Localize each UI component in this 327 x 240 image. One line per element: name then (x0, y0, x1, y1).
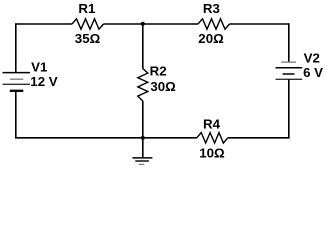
ground bar small gray (139, 163, 145, 165)
battery V1 plate short gray (10, 78, 23, 80)
svg-text:V2: V2 (304, 50, 320, 65)
svg-text:30Ω: 30Ω (150, 79, 176, 94)
svg-text:R4: R4 (203, 117, 221, 132)
svg-text:20Ω: 20Ω (198, 31, 224, 46)
battery V1 plate short thick (negative) (10, 90, 23, 92)
ground stub (142, 138, 144, 159)
wire R2 lower lead (142, 101, 144, 138)
battery V1 plate long (positive top) (3, 72, 31, 74)
wire bottom-right (R4 to V2) (228, 137, 290, 139)
wire bottom-left (V1 to R4) (16, 137, 197, 139)
resistor R1 (72, 19, 104, 29)
wire top-right (R3 to V2) (230, 23, 289, 25)
ground bar middle (135, 160, 149, 162)
wire right-vertical lower (V2 to bottom corner) (288, 79, 290, 138)
svg-text:35Ω: 35Ω (75, 31, 101, 46)
svg-text:R2: R2 (150, 64, 167, 79)
svg-text:10Ω: 10Ω (199, 146, 225, 161)
ground bar long (132, 157, 152, 159)
svg-text:12 V: 12 V (30, 74, 57, 89)
wire top-middle (R1 to R3) (104, 23, 199, 25)
resistor R3 (198, 19, 230, 29)
battery V2 plate short (negative) (283, 73, 295, 75)
battery V2 plate short gray (top) (281, 61, 296, 63)
svg-text:R1: R1 (78, 1, 96, 16)
battery V2 plate long (positive) (276, 67, 303, 69)
node bottom junction dot (141, 136, 145, 140)
node top junction dot (141, 22, 145, 26)
wire R2 upper lead (142, 24, 144, 69)
wire top-left (V1 top to R1) (16, 23, 72, 25)
resistor R4 (197, 133, 228, 143)
wire right-vertical upper (corner to V2 plate) (288, 23, 290, 62)
svg-text:R3: R3 (203, 1, 220, 16)
battery V1 plate long lower (3, 83, 31, 85)
svg-text:6 V: 6 V (303, 65, 323, 80)
wire left-vertical upper (corner to V1 plate) (15, 23, 17, 72)
battery V2 plate long bottom (276, 78, 303, 80)
wire left-vertical lower (V1 to bottom corner) (15, 91, 17, 139)
svg-text:V1: V1 (31, 59, 48, 74)
resistor R2 (138, 69, 148, 102)
